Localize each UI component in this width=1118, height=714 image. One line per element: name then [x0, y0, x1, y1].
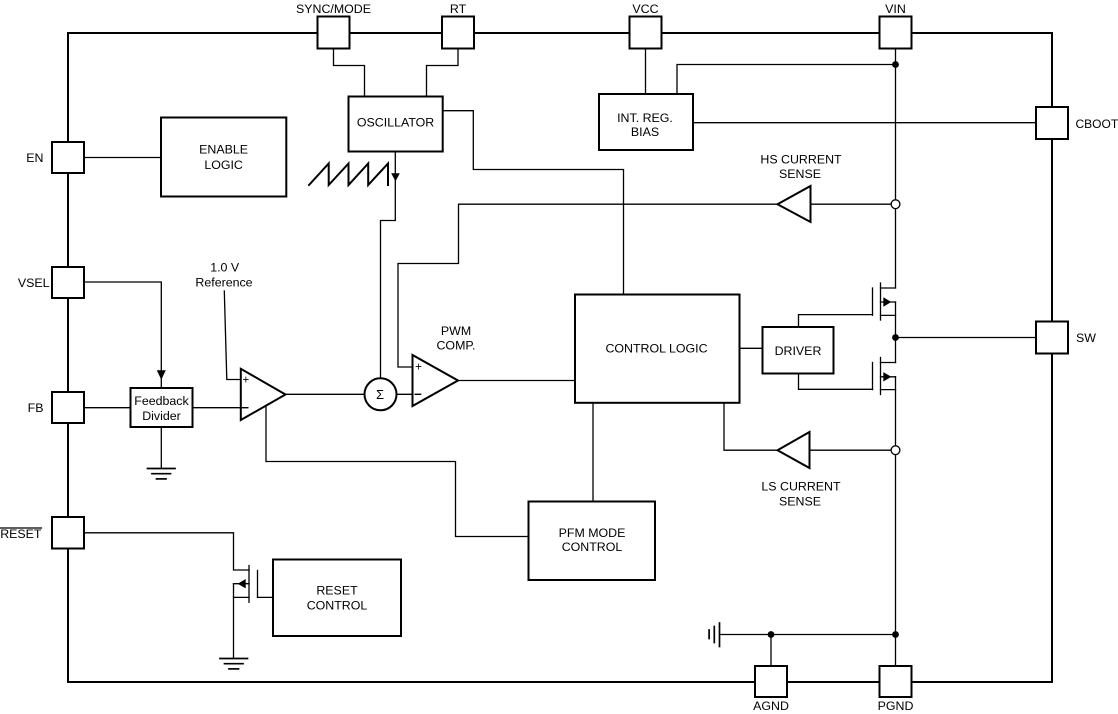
svg-text:CONTROL: CONTROL — [562, 540, 623, 554]
svg-text:AGND: AGND — [753, 699, 789, 713]
junction dot PGND node — [892, 631, 899, 638]
junction dot VIN tap — [892, 61, 899, 68]
svg-text:Feedback: Feedback — [134, 394, 189, 408]
wire feedback divider to error amp minus — [193, 407, 242, 409]
pin FB — [52, 392, 84, 423]
svg-text:LS CURRENT: LS CURRENT — [761, 480, 841, 494]
svg-text:INT. REG.: INT. REG. — [617, 111, 673, 125]
block CONTROL LOGIC — [575, 295, 740, 403]
svg-text:FB: FB — [28, 401, 44, 415]
pin RT — [442, 17, 474, 49]
svg-text:SENSE: SENSE — [779, 167, 821, 181]
svg-text:RESET: RESET — [0, 527, 42, 541]
wire RT to oscillator — [427, 49, 459, 97]
svg-text:Divider: Divider — [142, 409, 181, 423]
wire HS current sense output to PWM comp plus — [398, 204, 778, 367]
pin EN — [52, 142, 84, 173]
amp LS current sense — [778, 432, 810, 468]
pin SYNC/MODE — [318, 17, 350, 49]
svg-text:Σ: Σ — [376, 387, 384, 402]
svg-text:+: + — [242, 374, 249, 386]
transistor reset FET — [234, 566, 274, 603]
amp HS current sense — [778, 186, 811, 222]
pin RESET — [52, 517, 84, 549]
wire AGND node down to AGND pin — [770, 635, 772, 667]
wire oscillator bottom to sigma node — [381, 152, 396, 379]
wire feedback divider to ground — [160, 427, 162, 468]
transistor LS FET — [873, 358, 896, 395]
svg-text:COMP.: COMP. — [436, 339, 475, 353]
wire PWM comp output to control logic — [458, 380, 575, 382]
svg-text:VSEL: VSEL — [18, 276, 50, 290]
pin VCC — [630, 17, 662, 49]
svg-text:SW: SW — [1076, 331, 1096, 345]
svg-text:PFM MODE: PFM MODE — [559, 526, 626, 540]
wire ground bus to AGND — [720, 634, 896, 636]
svg-text:1.0 V: 1.0 V — [210, 260, 240, 274]
block Feedback Divider — [131, 388, 193, 427]
arrowhead on oscillator ramp wire — [391, 173, 400, 181]
block RESET CONTROL — [273, 560, 401, 637]
pin PGND — [880, 666, 912, 697]
wire HS current sense input from VIN line — [811, 203, 896, 205]
svg-text:CBOOT: CBOOT — [1076, 117, 1118, 131]
block DRIVER — [763, 327, 834, 374]
ground below feedback divider — [148, 469, 176, 479]
svg-text:EN: EN — [26, 151, 43, 165]
summing node sigma — [365, 378, 397, 410]
wire error amp output to sigma — [286, 393, 365, 395]
block PFM MODE CONTROL — [529, 502, 656, 581]
wire control logic to LS current sense — [724, 403, 778, 450]
text PWM comp minus — [415, 393, 422, 395]
svg-text:ENABLE: ENABLE — [199, 143, 248, 157]
arrowhead into feedback divider — [157, 370, 166, 380]
junction dot SW node — [892, 334, 899, 341]
wire 1.0V reference to error amp plus — [224, 291, 241, 380]
ground below reset FET — [220, 659, 248, 669]
block INT. REG. BIAS — [599, 94, 693, 150]
transistor HS FET — [873, 283, 896, 320]
pin CBOOT — [1036, 107, 1068, 139]
svg-text:RESET: RESET — [316, 584, 358, 598]
svg-text:SENSE: SENSE — [779, 494, 821, 508]
node HS sense tap open circle — [891, 200, 900, 209]
wire oscillator right output to control logic top — [443, 111, 624, 295]
svg-text:VCC: VCC — [632, 2, 658, 16]
svg-text:+: + — [415, 362, 422, 374]
svg-text:VIN: VIN — [885, 2, 906, 16]
overline for RESET label — [1, 527, 42, 529]
pin AGND — [755, 666, 787, 697]
svg-text:HS CURRENT: HS CURRENT — [760, 153, 842, 167]
ground symbol chassis left — [709, 623, 719, 647]
junction dot AGND node — [768, 631, 775, 638]
op-amp PWM comparator — [413, 355, 459, 406]
wire VIN tap to int reg bias — [677, 65, 896, 95]
svg-text:PWM: PWM — [441, 324, 471, 338]
sawtooth ramp symbol — [309, 164, 388, 186]
wire RESET pin to reset FET drain — [84, 533, 249, 570]
wire VSEL to feedback divider — [84, 282, 161, 388]
wire control logic to PFM mode control — [592, 403, 594, 502]
svg-text:PGND: PGND — [878, 699, 914, 713]
wire SYNC/MODE to oscillator — [334, 49, 365, 97]
op-amp error amplifier — [241, 369, 286, 420]
svg-text:LOGIC: LOGIC — [204, 158, 243, 172]
wire SW node vertical — [895, 302, 897, 363]
wire sigma to PWM comp minus — [397, 393, 413, 395]
wire control logic to driver — [740, 347, 763, 349]
svg-text:OSCILLATOR: OSCILLATOR — [357, 116, 434, 130]
wire EN pin to enable logic — [84, 157, 161, 159]
wire driver to LS gate — [799, 374, 873, 390]
svg-text:BIAS: BIAS — [631, 125, 659, 139]
wire LS current sense input from SW line — [810, 449, 896, 451]
wire driver to HS gate — [799, 315, 873, 327]
pin SW — [1036, 322, 1068, 354]
svg-text:SYNC/MODE: SYNC/MODE — [296, 2, 371, 16]
svg-text:DRIVER: DRIVER — [775, 344, 822, 358]
svg-text:CONTROL LOGIC: CONTROL LOGIC — [605, 342, 707, 356]
wire reset FET source to ground — [233, 584, 235, 658]
block ENABLE LOGIC — [161, 118, 286, 197]
svg-text:CONTROL: CONTROL — [307, 599, 368, 613]
wire VIN down to HS FET drain — [895, 49, 897, 289]
node LS sense tap open circle — [891, 446, 900, 455]
svg-text:RT: RT — [450, 2, 467, 16]
block OSCILLATOR — [349, 97, 443, 152]
pin VSEL — [52, 267, 84, 298]
wire FB pin to feedback divider — [84, 407, 131, 409]
text error amp minus — [242, 407, 249, 409]
wire error amp output tap to PFM mode control — [266, 405, 529, 536]
wire LS source down to PGND — [895, 377, 897, 666]
wire int reg bias to CBOOT — [693, 122, 1036, 124]
pin VIN — [880, 17, 912, 49]
svg-text:Reference: Reference — [195, 276, 252, 290]
wire SW node to SW pin — [896, 337, 1037, 339]
wire VCC to int reg bias — [645, 49, 647, 95]
